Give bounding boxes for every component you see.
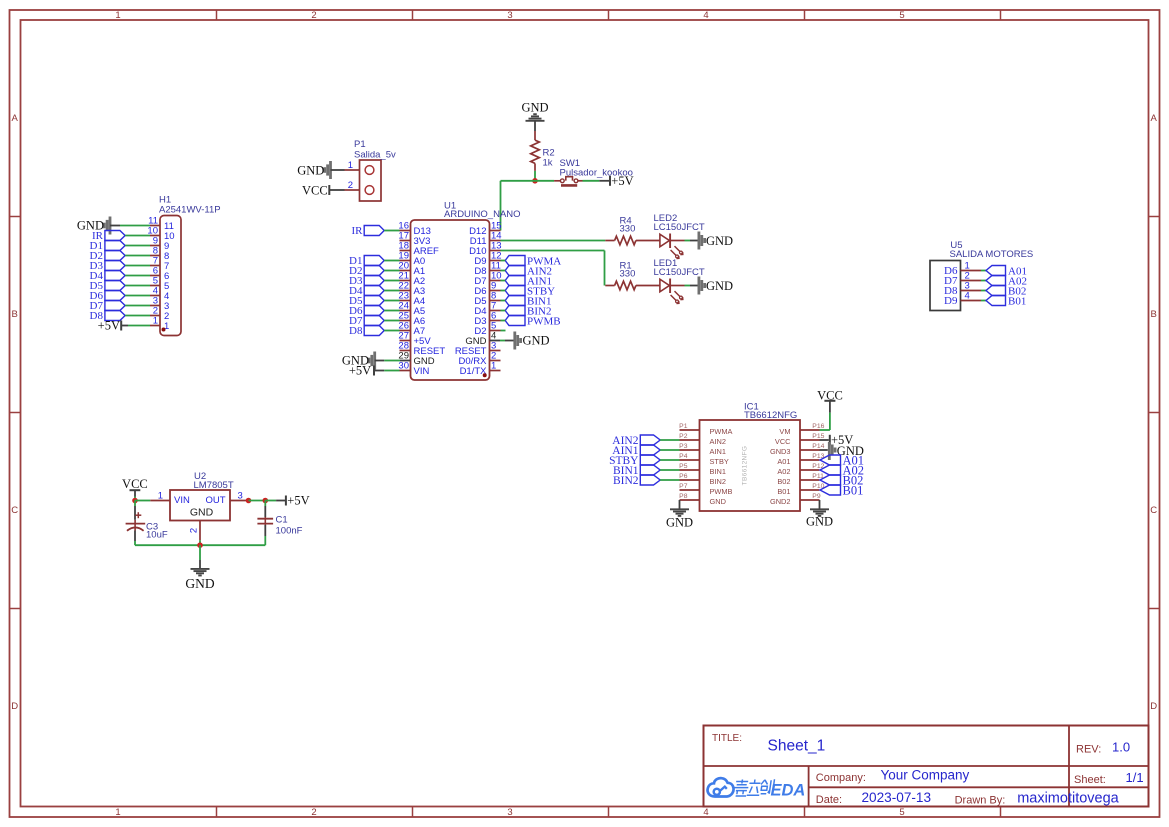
svg-text:3: 3 [507,10,512,21]
svg-text:+5V: +5V [611,174,633,188]
svg-text:10uF: 10uF [146,529,168,540]
wire [134,506,136,520]
resistor R2 1k [531,131,555,171]
net flag AIN1 (IC1) [612,445,660,457]
svg-text:P6: P6 [679,473,688,480]
wire [264,536,266,545]
svg-text:VM: VM [779,427,790,436]
regulator U2 LM7805T [150,471,248,540]
svg-text:Date:: Date: [816,794,842,806]
net flag AIN2 (IC1) [612,435,660,447]
svg-text:D: D [11,701,18,712]
net flag D7 (H1) [90,300,126,312]
svg-text:D: D [1150,701,1157,712]
net flag B02 (U5) [986,285,1026,297]
svg-text:2: 2 [348,180,353,191]
capacitor C1 100nF [257,514,302,536]
wire [134,501,136,507]
net port +5V (SW1) [610,174,634,188]
capacitor C3 10uF [126,512,168,540]
wire [134,531,136,542]
junction node (VCC/C3/U2.1) [132,498,138,504]
wire [534,171,536,181]
wire [125,275,150,277]
wire [125,255,150,257]
svg-text:330: 330 [620,224,636,235]
svg-text:GND: GND [521,100,548,114]
svg-text:BIN2: BIN2 [613,475,639,487]
wire [981,290,986,292]
wire [501,330,506,332]
svg-text:P9: P9 [812,493,821,500]
net port GND (LED2) [699,232,733,250]
wire [199,540,201,545]
wire [501,250,605,252]
wire [128,325,150,327]
logo JLC EDA [708,778,806,799]
svg-text:4: 4 [965,291,970,302]
net flag A02 (U5) [986,275,1027,287]
wire [125,295,150,297]
svg-text:VIN: VIN [174,495,190,506]
connector H1 A2541WV-11P [147,195,220,336]
wire [535,180,554,182]
svg-text:BIN1: BIN1 [710,467,726,476]
wire [125,305,150,307]
svg-text:GND: GND [706,279,733,293]
net flag A01 (U5) [986,265,1027,277]
svg-text:A: A [1151,113,1158,124]
wire [374,370,384,372]
wire [981,270,986,272]
wire [384,320,399,322]
junction node (U2.3 output) [246,498,252,504]
net port GND (LED1) [699,277,733,295]
net port +5V (U2 output) [286,494,310,508]
svg-text:+5V: +5V [349,364,371,378]
wire [134,497,136,501]
svg-text:VCC: VCC [302,183,328,197]
net flag A02 (IC1) [820,463,864,477]
wire [125,315,150,317]
wire [981,300,986,302]
wire [384,370,399,372]
wire [134,490,136,496]
wire [534,121,536,131]
svg-text:STBY: STBY [710,457,729,466]
wire [134,541,136,545]
svg-text:IR: IR [352,225,364,237]
net flag D4 (H1) [90,270,126,282]
wire [384,280,399,282]
ground (IC1 pin P8) [666,509,693,529]
LED LED2 LC150JFCT [654,213,705,259]
wire [135,544,265,546]
svg-text:LM7805T: LM7805T [194,480,234,491]
junction node (C1/+5V) [263,498,269,504]
svg-text:2023-07-13: 2023-07-13 [862,790,932,805]
wire [501,320,506,322]
net port GND (U1 pin 29) [342,352,375,370]
svg-text:VCC: VCC [775,437,791,446]
net port GND (H1 pin 11) [77,217,110,235]
svg-text:C: C [11,505,18,516]
net flag D5 (U1 A4) [349,295,384,307]
svg-text:GND: GND [710,497,726,506]
wire [583,180,600,182]
wire [125,265,150,267]
wire [690,285,699,287]
svg-text:GND: GND [185,576,214,591]
wire [375,360,385,362]
wire [829,401,831,413]
svg-text:VIN: VIN [414,366,430,377]
wire [660,459,679,461]
wire [660,439,679,441]
svg-text:B01: B01 [843,483,864,497]
svg-text:C1: C1 [276,514,288,525]
wire [505,340,514,342]
svg-text:2: 2 [311,10,316,21]
svg-text:3: 3 [507,807,512,818]
wire [135,500,150,502]
svg-text:maximotitovega: maximotitovega [1017,791,1119,807]
wire [384,360,400,362]
svg-text:GND: GND [706,234,733,248]
svg-text:A2541WV-11P: A2541WV-11P [159,205,221,216]
net port +5V (IC1 P15) [830,433,854,447]
wire [384,290,399,292]
resistor R1 330 [605,260,660,290]
wire [660,449,679,451]
net flag D8 (H1) [90,310,126,322]
svg-text:Sheet_1: Sheet_1 [768,738,826,755]
wire [490,340,501,342]
resistor R4 330 [605,216,660,245]
net flag D7 (U1 A6) [349,315,384,327]
net flag STBY (IC1) [609,455,660,467]
svg-text:GND: GND [190,507,214,519]
wire [685,285,691,287]
net port GND (P1 pin 1) [297,161,330,179]
wire [199,560,201,569]
svg-text:1: 1 [348,160,353,171]
wire [820,439,829,441]
wire [820,449,828,451]
net flag BIN1 (U1) [505,295,551,307]
svg-text:EDA: EDA [771,782,806,800]
IC IC1 TB6612NFG [679,402,824,512]
svg-text:TITLE:: TITLE: [712,733,742,744]
svg-text:100nF: 100nF [276,525,303,536]
svg-text:P2: P2 [679,433,688,440]
wire [501,310,506,312]
wire [500,340,505,342]
svg-text:B02: B02 [777,477,790,486]
net flag D3 (U1 A2) [349,275,384,287]
net flag A01 (IC1) [820,453,864,467]
svg-text:P5: P5 [679,463,688,470]
junction node (R2 / SW1 / D12) [532,178,538,184]
svg-text:GND: GND [297,163,324,177]
svg-text:AIN1: AIN1 [710,447,726,456]
net port VCC (IC1 P16) [817,388,843,402]
connector U5 SALIDA MOTORES [930,240,1033,311]
svg-text:LC150JFCT: LC150JFCT [654,267,705,278]
net flag D2 (H1) [90,250,126,262]
net flag STBY (U1) [505,285,555,297]
ground (top of R2) [521,100,548,120]
net flag PWMB (U1) [505,315,560,327]
svg-text:4: 4 [703,10,708,21]
wire [501,300,506,302]
svg-text:P4: P4 [679,453,688,460]
svg-text:PWMA: PWMA [710,427,733,436]
wire [276,500,286,502]
wire [121,325,128,327]
svg-text:A01: A01 [777,457,790,466]
wire [384,260,399,262]
wire [599,180,610,182]
svg-text:C: C [1150,505,1157,516]
svg-text:AIN2: AIN2 [710,437,726,446]
net flag B02 (IC1) [820,473,863,487]
wire [604,251,606,286]
wire [819,500,821,509]
svg-text:1: 1 [115,807,120,818]
wire [501,180,536,182]
wire [125,235,150,237]
net flag B01 (IC1) [820,483,863,497]
wire [125,285,150,287]
wire [829,413,831,430]
wire [384,300,399,302]
wire [660,479,679,481]
svg-text:4: 4 [703,807,708,818]
svg-text:BIN2: BIN2 [710,477,726,486]
wire [264,501,266,507]
net port VCC (P1 pin 2) [302,183,329,197]
svg-text:+5V: +5V [98,319,120,333]
wire [384,270,399,272]
junction node (GND net U2) [197,542,203,548]
net flag D5 (H1) [90,280,126,292]
svg-text:5: 5 [899,10,904,21]
wire [501,280,506,282]
svg-text:GND3: GND3 [770,447,791,456]
svg-text:PWMB: PWMB [527,315,561,327]
wire [265,500,276,502]
wire [384,230,399,232]
svg-text:B01: B01 [1008,295,1026,307]
svg-text:P1: P1 [679,423,688,430]
net port GND (IC1 P14) [829,442,864,460]
net flag D8 (U1 A7) [349,325,384,337]
net flag PWMA (U1) [505,255,561,267]
net flag AIN2 (U1) [505,265,552,277]
net flag B01 (U5) [986,295,1026,307]
net flag D1 (U1 A0) [349,255,384,267]
connector P1 Salida_5v [345,139,396,201]
wire [264,506,266,517]
wire [249,500,266,502]
net flag BIN2 (U1) [505,305,551,317]
svg-text:GND2: GND2 [770,497,791,506]
svg-text:TB6612NFG: TB6612NFG [744,410,797,421]
svg-text:P1: P1 [354,139,366,150]
svg-text:TB6612NFG: TB6612NFG [742,446,749,486]
svg-text:Sheet:: Sheet: [1074,774,1106,786]
net flag D1 (H1) [90,240,126,252]
svg-text:VCC: VCC [817,388,843,402]
net flag BIN1 (IC1) [613,465,660,477]
svg-text:2: 2 [311,807,316,818]
LED LED1 LC150JFCT [654,258,705,304]
wire [501,260,506,262]
net flag D6 (H1) [90,290,126,302]
wire [331,169,345,171]
wire [384,310,399,312]
net port +5V (H1 pin 1) [98,319,122,333]
net port GND (U1 pin 4) [515,332,550,350]
wire [679,500,681,509]
ground (IC1 pin P9) [806,509,833,528]
svg-text:B01: B01 [777,487,790,496]
svg-text:3: 3 [238,490,243,501]
wire [120,225,150,227]
IC U1 ARDUINO_NANO [398,201,520,381]
net flag IR (H1) [92,230,125,242]
wire [660,469,679,471]
svg-text:D9: D9 [944,295,958,307]
svg-text:330: 330 [620,268,636,279]
net flag AIN1 (U1) [505,275,552,287]
wire [685,240,691,242]
net port +5V (U1 pin 30) [349,364,374,378]
wire [264,525,266,536]
svg-text:1k: 1k [543,158,553,169]
net port VCC (U2 VIN) [122,477,148,491]
svg-text:Salida_5v: Salida_5v [354,150,396,161]
svg-text:A: A [12,113,19,124]
svg-text:1/1: 1/1 [1126,770,1144,785]
svg-text:1.0: 1.0 [1112,740,1130,755]
svg-text:OUT: OUT [205,495,225,506]
ground (U2) [185,569,214,591]
svg-text:Company:: Company: [816,772,866,784]
svg-text:D8: D8 [349,325,363,337]
wire [501,240,606,242]
svg-text:B: B [12,309,18,320]
svg-text:P7: P7 [679,483,688,490]
svg-text:30: 30 [398,361,409,372]
wire [125,245,150,247]
svg-text:REV:: REV: [1076,744,1101,756]
wire [400,360,411,362]
wire [820,429,830,431]
svg-text:B: B [1151,309,1157,320]
net flag D3 (H1) [90,260,126,272]
svg-text:SALIDA MOTORES: SALIDA MOTORES [950,249,1034,260]
net flag D6 (U1 A5) [349,305,384,317]
wire [981,280,986,282]
net flag BIN2 (IC1) [613,475,660,487]
svg-text:PWMB: PWMB [710,487,733,496]
net flag IR (U1 D13) [352,225,385,237]
svg-text:+5V: +5V [287,494,309,508]
svg-text:ARDUINO_NANO: ARDUINO_NANO [444,209,521,220]
svg-text:1: 1 [158,490,163,501]
svg-text:P8: P8 [679,493,688,500]
svg-text:1: 1 [491,361,496,372]
wire [500,181,502,231]
svg-text:A02: A02 [777,467,790,476]
net flag D4 (U1 A3) [349,285,384,297]
wire [501,270,506,272]
svg-text:Your Company: Your Company [881,768,970,783]
net flag D2 (U1 A1) [349,265,384,277]
svg-text:LC150JFCT: LC150JFCT [654,222,705,233]
title block [704,726,1149,807]
wire [110,225,120,227]
svg-text:GND: GND [666,515,693,529]
svg-text:1: 1 [153,316,158,327]
svg-text:1: 1 [115,10,120,21]
svg-text:Drawn By:: Drawn By: [955,795,1006,807]
switch SW1 Pulsador_kookoo [554,158,633,185]
wire [384,330,399,332]
svg-text:GND: GND [806,514,833,528]
wire [329,189,344,191]
wire [690,240,699,242]
svg-text:2: 2 [189,528,200,533]
svg-text:5: 5 [899,807,904,818]
svg-text:VCC: VCC [122,477,148,491]
svg-text:GND: GND [523,334,550,348]
wire [501,290,506,292]
svg-text:P3: P3 [679,443,688,450]
wire [199,545,201,560]
